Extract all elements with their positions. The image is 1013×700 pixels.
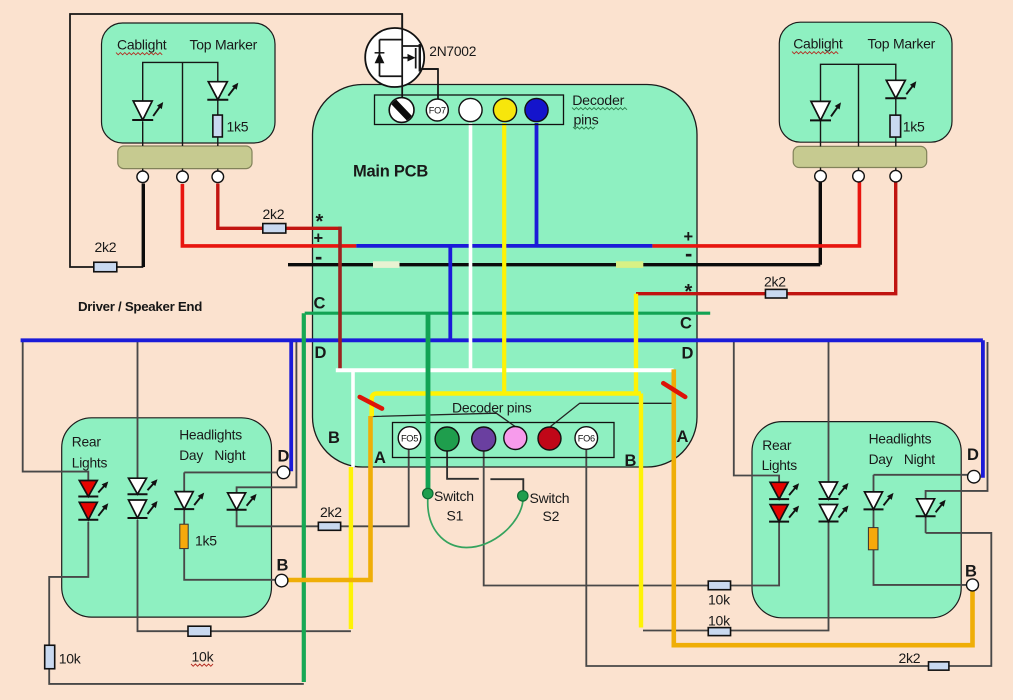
svg-text:Night: Night (214, 448, 245, 463)
svg-text:1k5: 1k5 (227, 119, 249, 135)
svg-text:FO7: FO7 (429, 105, 446, 115)
svg-text:Headlights: Headlights (869, 432, 932, 447)
svg-text:S1: S1 (447, 508, 464, 524)
svg-text:10k: 10k (59, 651, 82, 667)
svg-text:2k2: 2k2 (95, 239, 117, 255)
svg-text:Rear: Rear (72, 435, 102, 450)
svg-text:pins: pins (574, 113, 599, 129)
svg-text:10k: 10k (708, 613, 731, 629)
svg-text:1k5: 1k5 (195, 533, 217, 549)
svg-text:Driver / Speaker End: Driver / Speaker End (78, 299, 202, 314)
svg-text:10k: 10k (192, 649, 215, 665)
svg-text:A: A (677, 428, 689, 446)
svg-text:B: B (277, 557, 289, 575)
svg-text:-: - (315, 244, 322, 269)
svg-text:2k2: 2k2 (764, 273, 786, 289)
svg-text:D: D (278, 448, 290, 466)
svg-text:10k: 10k (708, 592, 731, 608)
svg-text:A: A (374, 449, 386, 467)
svg-text:Cablight: Cablight (117, 37, 167, 53)
svg-text:Main PCB: Main PCB (353, 163, 428, 181)
svg-text:Day: Day (179, 448, 203, 463)
svg-text:B: B (328, 429, 340, 447)
svg-text:Lights: Lights (72, 456, 108, 471)
svg-text:Switch: Switch (434, 488, 474, 504)
svg-text:1k5: 1k5 (903, 119, 925, 135)
svg-text:FO6: FO6 (578, 433, 595, 443)
svg-text:Day: Day (869, 452, 893, 467)
svg-text:2k2: 2k2 (320, 504, 342, 520)
svg-text:Decoder pins: Decoder pins (452, 400, 532, 416)
svg-text:Decoder: Decoder (572, 93, 624, 109)
svg-text:Night: Night (904, 452, 935, 467)
svg-text:2k2: 2k2 (263, 206, 285, 222)
svg-text:Lights: Lights (762, 458, 798, 473)
svg-text:Top Marker: Top Marker (868, 36, 936, 52)
svg-text:Headlights: Headlights (179, 428, 242, 443)
svg-text:2N7002: 2N7002 (429, 44, 476, 59)
svg-text:C: C (680, 315, 692, 333)
svg-text:Cablight: Cablight (793, 36, 843, 52)
svg-text:2k2: 2k2 (899, 650, 921, 666)
svg-text:Rear: Rear (762, 438, 792, 453)
svg-text:C: C (314, 295, 326, 313)
svg-text:FO5: FO5 (401, 433, 418, 443)
svg-text:Top Marker: Top Marker (190, 37, 258, 53)
svg-text:-: - (685, 241, 692, 266)
svg-text:B: B (625, 452, 637, 470)
svg-text:*: * (685, 281, 693, 303)
svg-text:B: B (965, 563, 977, 581)
svg-text:D: D (682, 345, 694, 363)
svg-text:D: D (315, 344, 327, 362)
svg-text:Switch: Switch (530, 490, 570, 506)
svg-text:D: D (967, 446, 979, 464)
svg-text:S2: S2 (543, 508, 560, 524)
